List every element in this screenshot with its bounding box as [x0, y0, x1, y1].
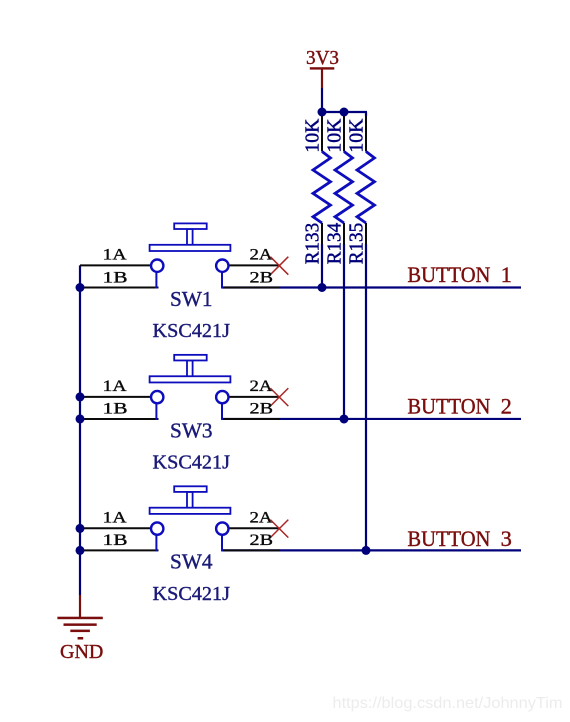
svg-text:KSC421J: KSC421J [153, 452, 231, 474]
svg-text:R133: R133 [302, 223, 324, 265]
svg-text:1: 1 [501, 262, 512, 287]
svg-text:2: 2 [501, 394, 512, 419]
svg-text:KSC421J: KSC421J [153, 583, 231, 605]
svg-text:3: 3 [501, 526, 512, 551]
svg-text:3V3: 3V3 [306, 47, 339, 69]
svg-text:BUTTON: BUTTON [407, 262, 490, 287]
svg-text:SW4: SW4 [170, 550, 213, 574]
svg-text:https://blog.csdn.net/JohnnyTi: https://blog.csdn.net/JohnnyTim [333, 695, 563, 712]
svg-text:SW3: SW3 [170, 418, 213, 442]
svg-text:BUTTON: BUTTON [407, 526, 490, 551]
svg-text:GND: GND [60, 641, 103, 663]
svg-text:BUTTON: BUTTON [407, 394, 490, 419]
svg-text:R135: R135 [346, 223, 368, 265]
svg-text:KSC421J: KSC421J [153, 320, 231, 342]
svg-text:SW1: SW1 [170, 287, 213, 311]
svg-text:R134: R134 [324, 223, 346, 265]
